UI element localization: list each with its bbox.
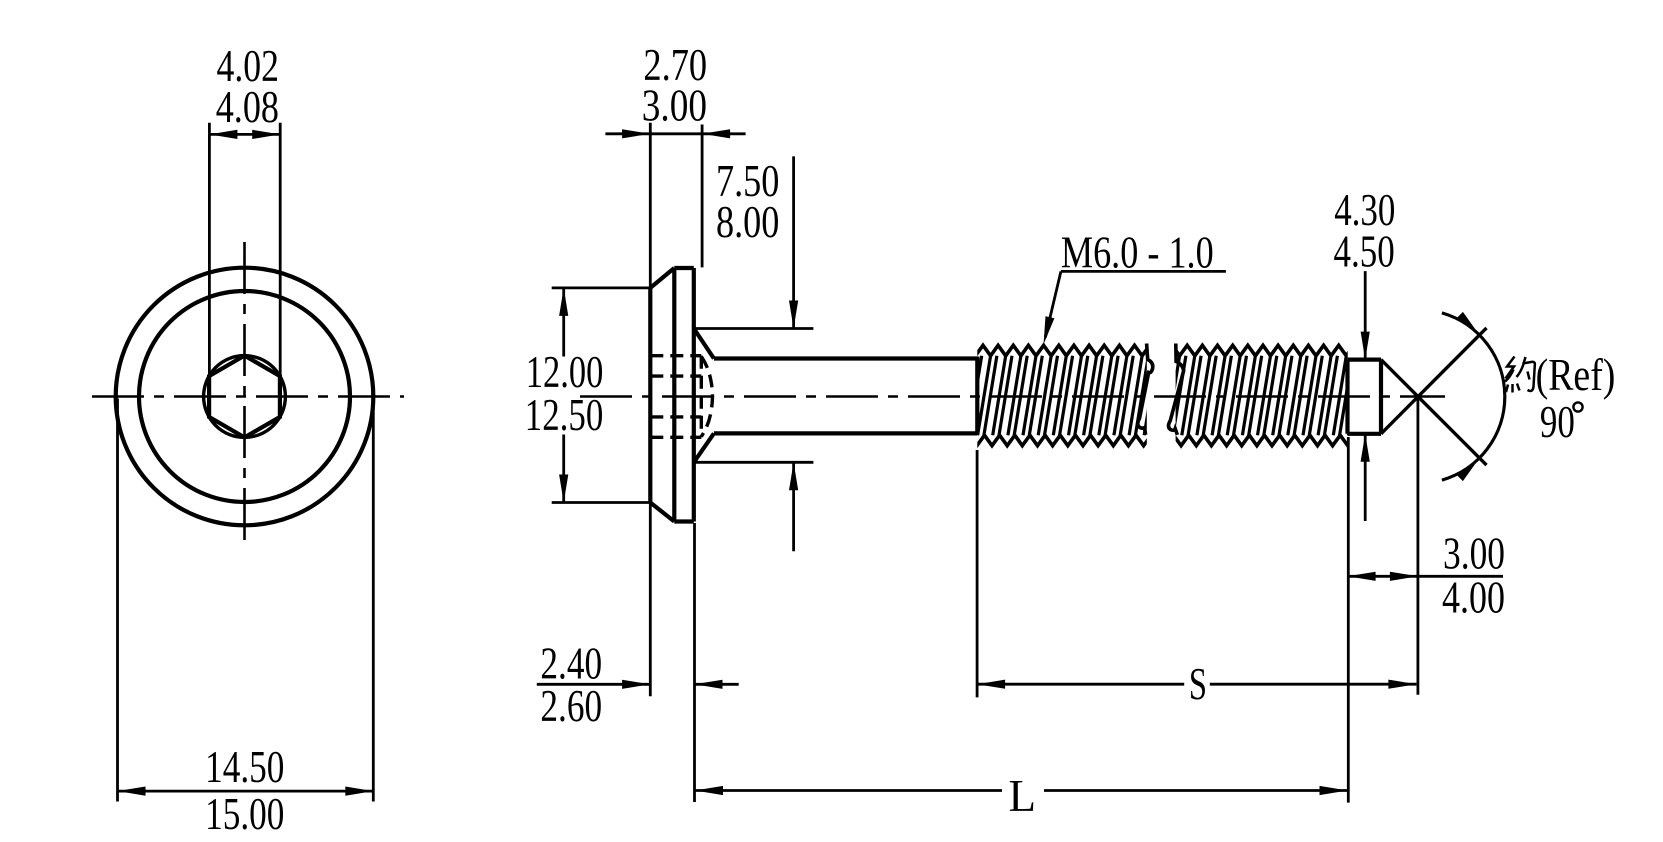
side view: pilot neck cylinder [1348,360,1382,434]
break torn edge left [1138,344,1153,435]
side view: head outline (flange + cone) [650,268,714,522]
dimension 2.70/3.00 head thickness [605,40,745,288]
thread start edge [975,357,979,435]
left view: head outer circle (dia 14.50/15.00) [116,268,374,526]
left view: hexagon socket (4.02/4.08 across flats) [209,356,280,438]
left view: bearing-face circle (dia 12.00/12.50) [139,291,350,502]
tip cone edge + construction line (lower-left to upper-right) [1381,328,1487,434]
dimension 4.02/4.08 socket width [209,41,280,376]
left view: vertical centerline [243,242,246,549]
dimension 2.40/2.60 flange thickness [537,503,739,803]
svg-text:S: S [1189,659,1207,709]
dimension 4.30/4.50 neck diameter [1334,185,1396,521]
svg-text:(Ref): (Ref) [1536,350,1616,400]
svg-text:4.08: 4.08 [216,82,279,132]
dimension 7.50/8.00 cone diameter [695,156,813,551]
dimension 3.00/4.00 point length [1348,397,1505,803]
dimension S thread length [977,450,1416,709]
svg-text:4.50: 4.50 [1334,227,1395,277]
svg-text:4.00: 4.00 [1442,572,1505,622]
dimension 14.50/15.00 head diameter [118,399,374,840]
svg-text:M6.0 - 1.0: M6.0 - 1.0 [1061,227,1214,277]
svg-text:12.50: 12.50 [525,390,604,440]
side view: shank top line [714,356,977,360]
svg-text:14.50: 14.50 [205,742,284,792]
dimension L overall length [695,771,1348,821]
left view: hex-socket drill circle [204,356,286,438]
dimension 12.00/12.50 face diameter [525,288,650,503]
tip cone edge + construction line (upper-left to lower-right) [1381,360,1487,466]
angular dimension arc (90 deg ref) [1442,312,1505,481]
svg-text:3.00: 3.00 [642,81,707,131]
note 約(Ref) 90 deg [1505,350,1615,447]
leader M6.0 - 1.0 thread callout [1044,227,1226,344]
svg-text:15.00: 15.00 [205,789,284,839]
side view: horizontal centerline [580,395,1445,398]
left view: horizontal centerline [92,395,404,398]
svg-text:8.00: 8.00 [716,197,779,247]
side view: hidden hex-socket lines [650,356,712,438]
svg-text:L: L [1009,771,1037,821]
svg-text:90: 90 [1540,397,1575,447]
svg-text:3.00: 3.00 [1443,529,1505,579]
side view: shank bottom line [714,431,977,435]
svg-text:2.60: 2.60 [540,681,602,731]
break torn edge right [1169,344,1184,435]
